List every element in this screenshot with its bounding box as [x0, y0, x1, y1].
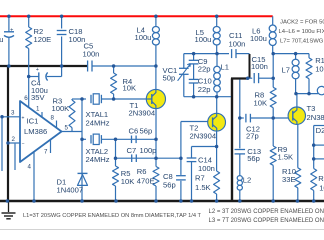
svg-text:7: 7 — [44, 149, 48, 156]
svg-text:100n: 100n — [198, 164, 215, 173]
svg-text:10K: 10K — [315, 64, 324, 73]
svg-text:IC1: IC1 — [27, 117, 39, 126]
svg-text:5: 5 — [65, 125, 69, 132]
svg-text:22p: 22p — [198, 85, 211, 94]
svg-text:100: 100 — [319, 183, 324, 192]
svg-text:100n: 100n — [251, 62, 268, 71]
svg-text:3: 3 — [11, 110, 15, 117]
svg-text:24MHz: 24MHz — [86, 155, 110, 164]
svg-text:2N3904: 2N3904 — [190, 132, 217, 141]
svg-text:+: + — [36, 67, 39, 73]
svg-text:56p: 56p — [247, 154, 260, 163]
svg-text:C6: C6 — [129, 126, 139, 135]
svg-text:10K: 10K — [123, 84, 137, 93]
svg-text:120E: 120E — [34, 35, 52, 44]
svg-text:470E: 470E — [137, 176, 155, 185]
svg-text:1N4007: 1N4007 — [57, 186, 84, 195]
svg-text:56p: 56p — [163, 181, 176, 190]
svg-text:L1: L1 — [221, 63, 229, 72]
svg-text:100p: 100p — [140, 146, 157, 155]
svg-text:L2: L2 — [243, 176, 251, 185]
svg-text:D2: D2 — [316, 126, 324, 135]
svg-text:+: + — [22, 115, 25, 121]
svg-text:33E: 33E — [282, 175, 296, 184]
svg-text:24MHz: 24MHz — [86, 119, 110, 128]
svg-text:6: 6 — [24, 95, 28, 102]
svg-text:L2 = 3T 20SWG COPPER ENAMELED: L2 = 3T 20SWG COPPER ENAMELED ON 8mm — [209, 209, 324, 215]
svg-text:1.5K: 1.5K — [195, 183, 211, 192]
svg-text:LM386: LM386 — [24, 127, 47, 136]
svg-text:100n: 100n — [83, 50, 100, 59]
svg-text:2N3904: 2N3904 — [129, 108, 156, 117]
svg-text:27p: 27p — [246, 132, 259, 141]
svg-text:C7: C7 — [127, 146, 137, 155]
svg-text:35V: 35V — [31, 93, 45, 102]
svg-text:10K: 10K — [121, 177, 135, 186]
svg-text:L1=3T 20SWG COPPER ENAMELED ON: L1=3T 20SWG COPPER ENAMELED ON 8mm DIAME… — [23, 213, 202, 219]
svg-text:50p: 50p — [163, 73, 176, 82]
svg-text:100u: 100u — [250, 34, 267, 43]
svg-text:100n: 100n — [229, 39, 246, 48]
svg-text:4: 4 — [28, 164, 32, 171]
svg-text:100u: 100u — [135, 33, 152, 42]
svg-text:XTAL1: XTAL1 — [86, 110, 109, 119]
svg-text:R12: R12 — [318, 174, 324, 183]
svg-text:10K: 10K — [254, 98, 268, 107]
svg-text:100K: 100K — [52, 104, 70, 113]
svg-text:L7= 70T,41SWG ON: L7= 70T,41SWG ON — [280, 39, 324, 45]
svg-text:L4–L6 = 100u FIXED: L4–L6 = 100u FIXED — [279, 29, 324, 35]
svg-text:L3 = 7T 20SWG COPPER ENAMELED: L3 = 7T 20SWG COPPER ENAMELED ON 8mm — [209, 218, 324, 224]
svg-text:+: + — [10, 27, 13, 33]
svg-text:8: 8 — [51, 115, 55, 122]
svg-text:1: 1 — [36, 106, 40, 113]
svg-text:22p: 22p — [198, 64, 211, 73]
svg-text:2N3866: 2N3866 — [307, 113, 324, 122]
svg-text:−: − — [22, 141, 25, 147]
svg-text:1.5K: 1.5K — [278, 152, 294, 161]
svg-text:0u: 0u — [0, 35, 4, 44]
svg-text:JACK2 = FOR 50Ω I: JACK2 = FOR 50Ω I — [280, 20, 324, 26]
svg-text:2: 2 — [12, 136, 16, 143]
svg-text:R6: R6 — [137, 167, 147, 176]
svg-text:100u: 100u — [195, 35, 212, 44]
svg-text:R7: R7 — [195, 174, 205, 183]
svg-text:56p: 56p — [140, 126, 153, 135]
svg-text:L7: L7 — [282, 66, 290, 75]
